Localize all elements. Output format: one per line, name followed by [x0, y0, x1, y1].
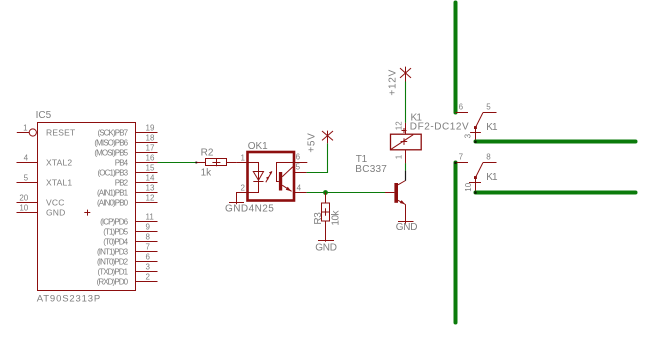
- junction dark overlap at contact1 common: [474, 141, 476, 143]
- svg-text:PB2: PB2: [115, 179, 129, 188]
- svg-text:AT90S2313P: AT90S2313P: [37, 293, 101, 304]
- OK1 pin 2 and wire to GND: [237, 184, 248, 205]
- pin 9 (T1)PD5: [103, 223, 157, 237]
- svg-text:OK1: OK1: [248, 141, 268, 152]
- resistor R3 10k: [313, 193, 342, 242]
- pin 17 (MOSI)PB5: [94, 144, 157, 158]
- svg-text:XTAL2: XTAL2: [46, 158, 72, 168]
- svg-text:7: 7: [459, 153, 464, 162]
- OK1 LED: [248, 163, 264, 193]
- pin 16 PB4: [115, 154, 158, 168]
- svg-text:6: 6: [146, 253, 151, 262]
- svg-text:14: 14: [146, 174, 155, 183]
- pin 2 (RXD)PD0: [97, 273, 158, 287]
- svg-text:13: 13: [146, 184, 155, 193]
- svg-text:3: 3: [146, 263, 151, 272]
- junction dark overlap at contact2 pin 7: [454, 162, 456, 164]
- OK1 light arrows: [266, 171, 273, 182]
- relay coil K1 DF2-DC12V: [391, 113, 470, 150]
- svg-text:15: 15: [146, 164, 155, 173]
- pin 7 (INT1)PD3: [97, 243, 157, 257]
- svg-text:5: 5: [296, 162, 301, 171]
- svg-text:5: 5: [486, 103, 491, 112]
- pin 10 GND: [17, 204, 66, 218]
- svg-text:(INT0)PD2: (INT0)PD2: [97, 258, 129, 267]
- svg-text:(MOSI)PB5: (MOSI)PB5: [94, 149, 128, 158]
- svg-text:VCC: VCC: [46, 198, 65, 208]
- svg-text:19: 19: [146, 124, 155, 133]
- svg-text:(RXD)PD0: (RXD)PD0: [97, 278, 129, 287]
- optocoupler OK1 box: [248, 152, 295, 201]
- wire OK1 pin 4 to T1 base: [307, 192, 385, 194]
- pin 12 (AIN0)PB0: [97, 194, 157, 208]
- svg-text:12: 12: [146, 194, 155, 203]
- resistor R2 1k: [197, 147, 237, 178]
- svg-text:GND: GND: [315, 243, 337, 254]
- svg-text:1: 1: [394, 154, 403, 159]
- pin 8 (T0)PD4: [103, 233, 157, 247]
- IC5 origin cross: [84, 210, 90, 216]
- wire R2 to OK1 pin 1: [237, 162, 248, 164]
- junction dark overlap at R2 left lead: [195, 162, 197, 164]
- svg-text:18: 18: [146, 134, 155, 143]
- svg-text:R2: R2: [201, 147, 214, 158]
- svg-text:8: 8: [146, 233, 151, 242]
- pin 19 (SCK)PB7: [97, 124, 157, 138]
- wire OK1 pin 5 to +5V: [307, 143, 328, 172]
- svg-text:XTAL1: XTAL1: [46, 178, 72, 188]
- svg-text:(MISO)PB6: (MISO)PB6: [94, 139, 128, 148]
- thick wire bottom vertical: [454, 163, 458, 323]
- pin 20 VCC: [17, 194, 65, 208]
- OK1 pin 4 stub: [294, 184, 307, 193]
- svg-text:(ICP)PD6: (ICP)PD6: [100, 218, 128, 227]
- thick wire contact1 output: [476, 140, 636, 144]
- thick wire contact2 output: [476, 191, 636, 195]
- pin 1 RESET with inversion bubble: [17, 124, 76, 138]
- svg-text:10: 10: [19, 204, 28, 213]
- OK1 pin 6 stub: [294, 153, 308, 163]
- svg-text:GND: GND: [396, 222, 418, 233]
- svg-text:(T0)PD4: (T0)PD4: [103, 238, 128, 247]
- relay contact K1 top: lever and common pin 3: [464, 113, 498, 142]
- pin 13 (AIN1)PB1: [97, 184, 157, 198]
- ground GND below R3: [315, 241, 337, 254]
- svg-text:1k: 1k: [201, 168, 213, 179]
- svg-text:+12V: +12V: [388, 69, 399, 96]
- pin 3 (TXD)PD1: [97, 263, 157, 277]
- pin 6 (INT0)PD2: [97, 253, 157, 267]
- svg-text:1: 1: [23, 124, 28, 133]
- relay contact K1 top: pin 5: [483, 103, 497, 113]
- coil pin 1 (bottom): [394, 150, 405, 163]
- OK1 pin 5 stub: [294, 162, 307, 172]
- svg-text:GND: GND: [46, 208, 66, 218]
- svg-text:(T1)PD5: (T1)PD5: [103, 228, 128, 237]
- pin 15 (OC1)PB3: [97, 164, 157, 178]
- svg-text:5: 5: [24, 174, 29, 183]
- IC IC5 box: [38, 123, 136, 291]
- svg-text:10: 10: [464, 182, 473, 191]
- svg-text:+5V: +5V: [307, 133, 318, 153]
- coil pin 12 (top): [394, 121, 406, 134]
- relay contact K1 bottom: pin 7: [456, 153, 469, 163]
- wire net PB4 to R2: [158, 162, 198, 164]
- svg-text:17: 17: [146, 144, 155, 153]
- ground GND at T1 emitter: [396, 222, 418, 233]
- svg-text:PB4: PB4: [115, 159, 129, 168]
- svg-text:10k: 10k: [330, 209, 341, 225]
- relay contact K1 top: pin 6: [456, 103, 469, 113]
- svg-text:9: 9: [146, 223, 151, 232]
- pin 4 XTAL2: [17, 154, 73, 168]
- pin 14 PB2: [115, 174, 158, 188]
- junction dark overlap at contact2 common: [474, 191, 476, 193]
- svg-text:(INT1)PD3: (INT1)PD3: [97, 248, 129, 257]
- relay contact K1 bottom: lever and common pin 10: [464, 163, 498, 193]
- svg-text:R3: R3: [313, 212, 324, 225]
- svg-text:GND4N25: GND4N25: [225, 204, 274, 215]
- svg-text:3: 3: [464, 133, 473, 138]
- pin 18 (MISO)PB6: [94, 134, 157, 148]
- svg-text:(OC1)PB3: (OC1)PB3: [97, 169, 128, 178]
- svg-text:K1: K1: [486, 172, 498, 183]
- wire collector net (green segment): [405, 163, 407, 171]
- svg-text:(TXD)PD1: (TXD)PD1: [97, 268, 128, 277]
- svg-text:DF2-DC12V: DF2-DC12V: [410, 121, 469, 132]
- junction node at R3 top: [323, 190, 328, 195]
- pin 11 (ICP)PD6: [100, 213, 157, 227]
- svg-text:(AIN0)PB0: (AIN0)PB0: [97, 199, 129, 208]
- pin 5 XTAL1: [17, 174, 73, 188]
- svg-text:8: 8: [486, 153, 491, 162]
- power +12V: [388, 67, 411, 96]
- svg-text:16: 16: [146, 154, 155, 163]
- svg-text:4: 4: [24, 154, 29, 163]
- OK1 phototransistor: [277, 163, 294, 192]
- wire T1 collector to relay coil (black segment): [405, 171, 407, 181]
- svg-text:20: 20: [19, 194, 28, 203]
- transistor T1 BC337: [355, 154, 405, 205]
- svg-text:6: 6: [296, 153, 301, 162]
- svg-text:BC337: BC337: [355, 164, 387, 175]
- svg-text:RESET: RESET: [46, 128, 75, 138]
- svg-text:4: 4: [297, 184, 302, 193]
- svg-text:6: 6: [459, 103, 464, 112]
- svg-text:7: 7: [146, 243, 151, 252]
- wire +12V to coil: [405, 82, 407, 123]
- svg-text:2: 2: [146, 273, 151, 282]
- power +5V: [307, 131, 334, 153]
- ground GND at OK1 pin 2: [229, 202, 244, 204]
- svg-text:11: 11: [146, 213, 155, 222]
- wire T1 emitter to GND: [405, 204, 407, 221]
- svg-text:2: 2: [240, 184, 245, 193]
- thick wire top vertical: [454, 3, 458, 113]
- svg-text:K1: K1: [486, 122, 498, 133]
- svg-text:(AIN1)PB1: (AIN1)PB1: [97, 189, 129, 198]
- svg-text:(SCK)PB7: (SCK)PB7: [97, 129, 128, 138]
- svg-text:IC5: IC5: [36, 110, 52, 121]
- svg-text:1: 1: [240, 154, 245, 163]
- svg-text:12: 12: [394, 121, 403, 130]
- relay contact K1 bottom: pin 8: [483, 153, 497, 163]
